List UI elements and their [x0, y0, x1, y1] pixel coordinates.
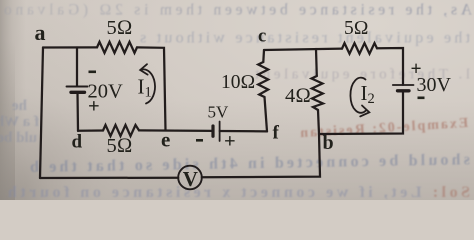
battery 5V long plate [219, 122, 221, 142]
wire: 5ohm to corner, down to e [137, 47, 166, 130]
wire: 4ohm to b junction [318, 110, 319, 134]
label minus of 30V [418, 97, 425, 100]
resistor R1 5ohm top-left [97, 42, 137, 53]
wire: 5ohm to corner, down to 30V battery [377, 48, 403, 85]
svg-text:5Ω: 5Ω [344, 18, 369, 39]
wire: c corner down to 10ohm [262, 50, 265, 62]
svg-text:c: c [258, 26, 266, 46]
wire: top segment c to top-right corner [264, 49, 342, 50]
wire: 5V battery to f [220, 130, 267, 133]
resistor R5 4ohm [312, 76, 324, 110]
svg-text:f a Whe: f a Whe [0, 114, 39, 130]
svg-text:f: f [273, 123, 280, 144]
wire: 4ohm branch top lead [315, 49, 318, 76]
svg-text:4Ω: 4Ω [285, 85, 311, 107]
battery 20V short plate [71, 91, 85, 94]
svg-text:b: b [323, 132, 334, 154]
battery 20V branch top lead [76, 48, 78, 87]
voltmeter V circle [178, 166, 202, 190]
wire: left edge a down to bottom-left corner [40, 48, 43, 179]
svg-text:30V: 30V [417, 74, 452, 96]
mesh current I1 arrow arc [141, 69, 155, 103]
svg-text:he: he [12, 98, 27, 114]
svg-text:the equivalent resistance with: the equivalent resistance without s [140, 30, 470, 47]
svg-text:As, the resistance between the: As, the resistance between them is 2Ω (G… [4, 2, 472, 19]
svg-text:5Ω: 5Ω [107, 135, 133, 157]
wire: 10ohm down to f [265, 97, 268, 131]
label minus of 5V [196, 139, 203, 142]
resistor R3 10ohm [258, 62, 268, 97]
resistor R2 5ohm bottom [103, 125, 139, 136]
svg-text:d: d [72, 132, 83, 153]
circuit drawing [40, 42, 414, 189]
wire: d to bottom 5ohm [78, 129, 103, 132]
mesh current I2 arrow arc [350, 78, 366, 113]
battery 30V short plate [398, 89, 410, 92]
wire: top segment a to corner above e [43, 46, 97, 48]
svg-text:+: + [224, 131, 236, 153]
svg-text:V: V [183, 167, 198, 191]
wire: voltmeter to bottom-right, up to b [202, 134, 320, 177]
battery 30V long plate [393, 84, 414, 86]
wire: 5ohm to e to 5V battery [139, 129, 213, 132]
battery 20V bottom lead to d [76, 93, 79, 131]
label minus of 20V [89, 71, 97, 74]
wire: bottom outer left to voltmeter [40, 177, 178, 180]
svg-text:5Ω: 5Ω [107, 17, 133, 39]
svg-text:+: + [88, 96, 100, 118]
svg-text:10Ω: 10Ω [221, 72, 255, 93]
battery 5V short plate [211, 126, 214, 136]
svg-text:5V: 5V [208, 103, 230, 122]
resistor R4 5ohm top-right [342, 43, 377, 54]
wire: 30V battery down to bottom-right corner of right loop [319, 91, 403, 134]
svg-text:uld be: uld be [0, 130, 37, 146]
svg-text:e: e [161, 128, 170, 152]
battery 20V long plate [67, 86, 88, 88]
svg-text:a: a [35, 20, 46, 45]
